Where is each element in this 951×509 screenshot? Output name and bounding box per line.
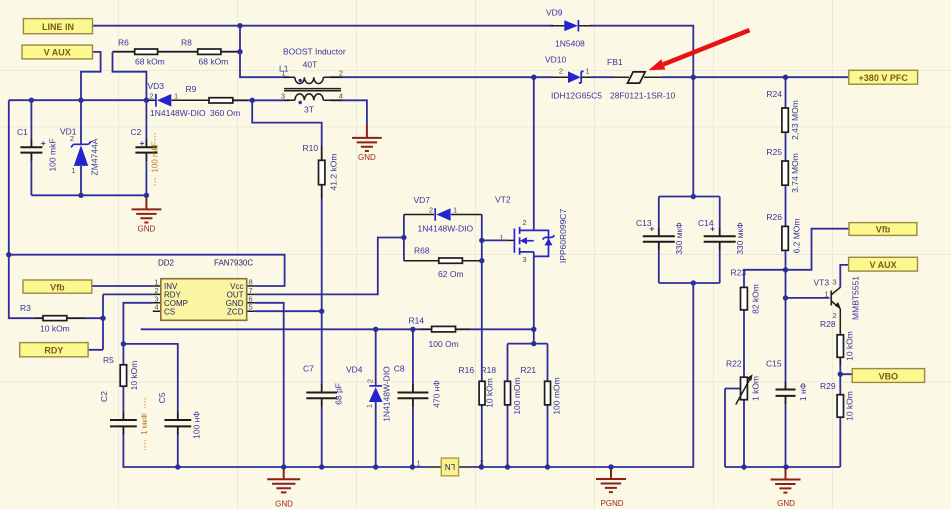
wire VD10 FB1 rail to +380 port bbox=[591, 76, 849, 78]
wire cap lead stubs (black) bbox=[31, 139, 785, 435]
svg-text:1: 1 bbox=[365, 404, 374, 408]
svg-text:VD1: VD1 bbox=[60, 127, 77, 137]
svg-text:C2: C2 bbox=[131, 127, 142, 137]
svg-text:BOOST Inductor: BOOST Inductor bbox=[283, 47, 346, 57]
wire R6 left branch down to V AUX rail bbox=[113, 52, 147, 100]
wire RDY net R3 junction bbox=[67, 294, 153, 349]
svg-text:2: 2 bbox=[559, 67, 563, 76]
wire Vfb tap bbox=[786, 229, 850, 270]
ground GND under IC bbox=[267, 467, 300, 509]
svg-text:VD4: VD4 bbox=[346, 365, 363, 375]
port VBO bbox=[852, 369, 924, 383]
svg-text:R16: R16 bbox=[459, 365, 475, 375]
svg-text:10 kOm: 10 kOm bbox=[485, 378, 495, 408]
svg-text:LINE IN: LINE IN bbox=[42, 22, 74, 32]
svg-text:GND: GND bbox=[777, 499, 795, 508]
svg-text:1N5408: 1N5408 bbox=[555, 39, 585, 49]
svg-text:1: 1 bbox=[586, 67, 590, 76]
wire R6 R8 row bbox=[113, 51, 241, 53]
capacitor C2 top bbox=[131, 100, 160, 195]
capacitor C7 bbox=[303, 364, 344, 405]
capacitor C13 bbox=[636, 218, 684, 255]
svg-text:68 kOm: 68 kOm bbox=[199, 57, 229, 67]
svg-text:1N4148W-DIO: 1N4148W-DIO bbox=[418, 224, 474, 234]
wire COMP to R5 C5 bbox=[123, 303, 152, 365]
svg-text:470 нФ: 470 нФ bbox=[432, 380, 442, 408]
resistor R21 bbox=[521, 365, 562, 415]
zener diode VD1 ZM4744A bbox=[60, 100, 100, 195]
wire C13 C14 top bracket feed bbox=[692, 77, 694, 196]
wire C8 branch bbox=[412, 329, 414, 467]
capacitor C2 bottom bbox=[99, 391, 149, 450]
svg-text:+: + bbox=[710, 224, 715, 234]
svg-text:330 мкФ: 330 мкФ bbox=[735, 222, 745, 255]
svg-text:DD2: DD2 bbox=[158, 259, 175, 268]
op-amp controller IC DD2 FAN7930C bbox=[153, 259, 255, 321]
svg-text:330 мкФ: 330 мкФ bbox=[674, 222, 684, 255]
svg-text:100 mkF: 100 mkF bbox=[48, 138, 58, 171]
svg-text:VD10: VD10 bbox=[545, 55, 567, 65]
svg-text:IPP60R099C7: IPP60R099C7 bbox=[558, 209, 568, 264]
svg-text:1: 1 bbox=[417, 459, 421, 468]
wire output divider chain bbox=[785, 77, 787, 270]
svg-text:4: 4 bbox=[339, 92, 343, 101]
svg-text:R23: R23 bbox=[731, 268, 747, 278]
resistor R23 bbox=[731, 268, 761, 314]
svg-text:1: 1 bbox=[500, 233, 504, 242]
wire gate to VT2 bbox=[482, 239, 508, 241]
wire COMP node to C5 bbox=[123, 344, 177, 420]
svg-text:2: 2 bbox=[366, 379, 375, 383]
svg-text:+: + bbox=[649, 224, 654, 234]
wire ZCD divider from R9 node to R10 bbox=[252, 100, 322, 160]
transistor VT3 MMBT5551 bbox=[814, 276, 861, 365]
ground GND right bbox=[771, 467, 801, 508]
resistor R29 bbox=[820, 381, 855, 421]
wire divider to VT3 base node bbox=[785, 270, 787, 390]
resistor R8 bbox=[181, 38, 228, 67]
svg-text:VD3: VD3 bbox=[148, 81, 165, 91]
svg-text:V AUX: V AUX bbox=[870, 260, 897, 270]
svg-text:1: 1 bbox=[281, 69, 285, 78]
wire V AUX port jog to rail bbox=[81, 52, 101, 100]
wire VT2 drain bbox=[533, 77, 535, 230]
svg-text:82 kOm: 82 kOm bbox=[751, 284, 761, 314]
potentiometer R22 bbox=[726, 359, 761, 405]
svg-text:ZM4744A: ZM4744A bbox=[90, 138, 100, 175]
wire INV from Vfb port bbox=[92, 285, 153, 287]
svg-text:10 kOm: 10 kOm bbox=[845, 331, 855, 361]
diode VD9 1N5408 bbox=[546, 8, 591, 49]
svg-text:C7: C7 bbox=[303, 364, 314, 374]
wire VT3 collector to V AUX bbox=[840, 265, 848, 288]
wire C5 bottom bbox=[177, 427, 179, 468]
svg-text:C5: C5 bbox=[157, 392, 167, 403]
wire left column V AUX net down to R3 bbox=[9, 100, 43, 318]
svg-text:100 mkF: 100 mkF bbox=[151, 141, 160, 172]
svg-text:LN: LN bbox=[445, 462, 455, 471]
svg-text:FB1: FB1 bbox=[607, 57, 623, 67]
wire 40T pin2 to VT2 drain node bbox=[330, 76, 553, 78]
svg-text:IDH12G65C5: IDH12G65C5 bbox=[551, 91, 602, 101]
wire VD7 R68 loop right and R16 chain bbox=[481, 215, 483, 382]
svg-text:2: 2 bbox=[149, 92, 153, 101]
wire R16 bottom bbox=[481, 405, 483, 467]
svg-text:2: 2 bbox=[429, 206, 433, 215]
wire VD9 cathode to +380 rail corner bbox=[590, 26, 693, 77]
svg-text:R22: R22 bbox=[726, 359, 742, 369]
svg-text:2,43 MOm: 2,43 MOm bbox=[790, 100, 800, 140]
annotation red arrow bbox=[649, 30, 750, 70]
svg-text:100 mOm: 100 mOm bbox=[512, 377, 522, 414]
diode VD3 bbox=[148, 81, 210, 118]
svg-text:2: 2 bbox=[70, 134, 74, 143]
resistor R16 bbox=[459, 365, 495, 408]
svg-text:R29: R29 bbox=[820, 381, 836, 391]
wire shunt bracket R18 R21 bbox=[508, 344, 548, 382]
svg-text:Vfb: Vfb bbox=[50, 282, 65, 292]
capacitor C5 bbox=[157, 392, 202, 439]
wire 3T pin4 to GND bbox=[330, 100, 367, 124]
capacitor C14 bbox=[698, 218, 745, 255]
wire C1 VD1 C2 bottom rail bbox=[31, 194, 146, 196]
wire R10 bottom to ZCD pin and C7 bbox=[321, 185, 323, 393]
capacitor C15 bbox=[766, 359, 808, 402]
svg-text:GND: GND bbox=[138, 225, 156, 234]
svg-text:2: 2 bbox=[339, 69, 343, 78]
resistor R6 bbox=[118, 38, 165, 67]
wire R23 branch bbox=[744, 270, 786, 377]
resistor R68 bbox=[404, 246, 482, 280]
svg-text:FAN7930C: FAN7930C bbox=[214, 259, 253, 268]
svg-text:R25: R25 bbox=[766, 147, 782, 157]
svg-text:GND: GND bbox=[358, 153, 376, 162]
svg-text:ZCD: ZCD bbox=[227, 308, 244, 317]
svg-text:1: 1 bbox=[71, 166, 75, 175]
svg-text:3: 3 bbox=[833, 278, 837, 287]
resistor R5 bbox=[103, 355, 139, 390]
resistor R25 bbox=[766, 147, 800, 193]
svg-text:C15: C15 bbox=[766, 359, 782, 369]
svg-text:+380 V PFC: +380 V PFC bbox=[859, 73, 909, 83]
svg-text:10 kOm: 10 kOm bbox=[40, 324, 70, 334]
wire VD4 anode to rail bbox=[375, 402, 377, 467]
svg-text:2: 2 bbox=[522, 218, 526, 227]
svg-text:5: 5 bbox=[249, 303, 253, 312]
svg-text:CS: CS bbox=[164, 308, 175, 317]
wire C13 C14 brackets bbox=[659, 197, 720, 284]
resistor R3 bbox=[20, 303, 70, 334]
wire V AUX rail bbox=[9, 99, 151, 101]
ground GND at 3T bbox=[352, 124, 382, 162]
port V AUX right bbox=[849, 257, 918, 271]
svg-text:VT3: VT3 bbox=[814, 278, 830, 288]
svg-text:1 нФ: 1 нФ bbox=[798, 383, 808, 401]
MOSFET VT2 IPP60R099C7 bbox=[495, 195, 568, 265]
svg-text:R24: R24 bbox=[766, 89, 782, 99]
svg-text:1N4148W-DIO: 1N4148W-DIO bbox=[150, 108, 206, 118]
svg-text:VT2: VT2 bbox=[495, 195, 511, 205]
resistor R14 bbox=[409, 316, 471, 350]
wire C15 bottom bbox=[785, 396, 787, 467]
svg-text:62 Om: 62 Om bbox=[438, 269, 464, 279]
diode VD10 IDH12G65C5 bbox=[545, 55, 602, 101]
wire Vcc feed from left column bbox=[9, 255, 285, 286]
port +380 V PFC bbox=[849, 70, 918, 84]
svg-text:Vfb: Vfb bbox=[876, 225, 891, 235]
boost inductor L1 bbox=[279, 47, 346, 115]
wire LINE IN drop to R6/R8 and L1 pin1 bbox=[240, 26, 289, 77]
svg-text:1N4148W-DIO: 1N4148W-DIO bbox=[382, 366, 392, 422]
svg-text:V AUX: V AUX bbox=[44, 48, 71, 58]
wire C7 bottom to ground rail bbox=[321, 398, 323, 467]
svg-text:3T: 3T bbox=[304, 105, 314, 115]
wire VT3 base bbox=[786, 297, 830, 299]
wire R18 R21 bottoms to PGND rail bbox=[508, 405, 548, 467]
svg-text:RDY: RDY bbox=[44, 346, 63, 356]
svg-text:C1: C1 bbox=[17, 127, 28, 137]
svg-text:1: 1 bbox=[824, 290, 828, 299]
svg-text:6.2 MOm: 6.2 MOm bbox=[792, 219, 802, 254]
svg-text:R10: R10 bbox=[303, 143, 319, 153]
wire VD4 branch bbox=[375, 329, 377, 386]
svg-text:360 Om: 360 Om bbox=[210, 108, 240, 118]
svg-text:28F0121-1SR-10: 28F0121-1SR-10 bbox=[610, 91, 675, 101]
svg-text:MMBT5551: MMBT5551 bbox=[851, 276, 861, 320]
svg-text:R26: R26 bbox=[766, 212, 782, 222]
diode VD7 bbox=[404, 195, 482, 234]
svg-text:VD9: VD9 bbox=[546, 8, 563, 18]
svg-text:R21: R21 bbox=[521, 365, 537, 375]
wire analog ground rail bbox=[123, 427, 428, 468]
port RDY bbox=[20, 343, 88, 357]
svg-text:VBO: VBO bbox=[879, 371, 899, 381]
capacitor C8 bbox=[394, 364, 442, 408]
svg-text:1: 1 bbox=[453, 206, 457, 215]
svg-text:68 pF: 68 pF bbox=[334, 383, 344, 405]
port V AUX left bbox=[22, 45, 93, 59]
resistor R24 bbox=[766, 89, 800, 140]
svg-text:3.74 MOm: 3.74 MOm bbox=[790, 153, 800, 193]
wire VT2 source to CS node and shunt bracket bbox=[533, 252, 535, 344]
wire OUT pin to gate network bbox=[255, 238, 404, 295]
svg-text:10 kOm: 10 kOm bbox=[129, 361, 139, 391]
wire R28 R29 VBO bbox=[840, 357, 852, 467]
svg-text:+: + bbox=[41, 138, 46, 148]
svg-text:R28: R28 bbox=[820, 319, 836, 329]
wire LINE IN top rail bbox=[93, 25, 554, 27]
svg-text:R6: R6 bbox=[118, 38, 129, 48]
port LINE IN bbox=[23, 19, 92, 34]
svg-text:R18: R18 bbox=[481, 365, 497, 375]
svg-text:GND: GND bbox=[275, 500, 293, 509]
svg-text:40T: 40T bbox=[303, 60, 318, 70]
svg-text:1: 1 bbox=[174, 92, 178, 101]
svg-text:3: 3 bbox=[281, 92, 285, 101]
svg-text:R14: R14 bbox=[409, 316, 425, 326]
svg-text:100 нФ: 100 нФ bbox=[192, 411, 202, 439]
connector LN bbox=[417, 458, 484, 476]
wire right ground rail bbox=[725, 389, 840, 468]
svg-text:R8: R8 bbox=[181, 38, 192, 48]
svg-text:VD7: VD7 bbox=[414, 195, 431, 205]
ground PGND bbox=[596, 467, 626, 508]
resistor R9 bbox=[186, 84, 249, 118]
svg-text:4: 4 bbox=[154, 303, 158, 312]
wire VD7 R68 loop left bbox=[403, 215, 405, 261]
port Vfb left bbox=[23, 280, 92, 293]
resistor R10 bbox=[303, 143, 339, 190]
svg-text:R5: R5 bbox=[103, 355, 114, 365]
svg-text:10 kOm: 10 kOm bbox=[845, 391, 855, 421]
resistor R26 bbox=[766, 212, 801, 253]
svg-text:100 mOm: 100 mOm bbox=[552, 377, 562, 414]
svg-text:3: 3 bbox=[522, 255, 526, 264]
diode VD4 bbox=[346, 365, 392, 422]
wire ZCD pin to divider bbox=[255, 310, 322, 312]
wire R5 to C2 bbox=[122, 386, 124, 420]
svg-text:100 Om: 100 Om bbox=[429, 339, 459, 349]
svg-text:C2: C2 bbox=[99, 391, 109, 402]
svg-text:1 мкФ: 1 мкФ bbox=[140, 413, 149, 435]
wire GND pin down bbox=[255, 303, 284, 467]
svg-text:R68: R68 bbox=[414, 246, 430, 256]
svg-text:+: + bbox=[140, 138, 145, 148]
svg-text:C8: C8 bbox=[394, 364, 405, 374]
svg-text:1 kOm: 1 kOm bbox=[751, 376, 761, 401]
svg-text:PGND: PGND bbox=[600, 499, 623, 508]
ferrite bead FB1 bbox=[607, 57, 675, 101]
svg-text:R9: R9 bbox=[186, 84, 197, 94]
wire R9 to 3T pin3 node bbox=[233, 99, 289, 101]
wire CS row bbox=[141, 328, 534, 330]
wire PGND rail bbox=[472, 283, 693, 467]
svg-text:41.2 kOm: 41.2 kOm bbox=[329, 154, 339, 191]
svg-text:R3: R3 bbox=[20, 303, 31, 313]
ground GND under C2 bbox=[132, 195, 162, 233]
svg-text:68 kOm: 68 kOm bbox=[135, 57, 165, 67]
resistor R18 bbox=[481, 365, 523, 415]
resistor R28 bbox=[820, 319, 855, 361]
port Vfb right bbox=[849, 223, 917, 236]
capacitor C1 bbox=[17, 100, 58, 195]
